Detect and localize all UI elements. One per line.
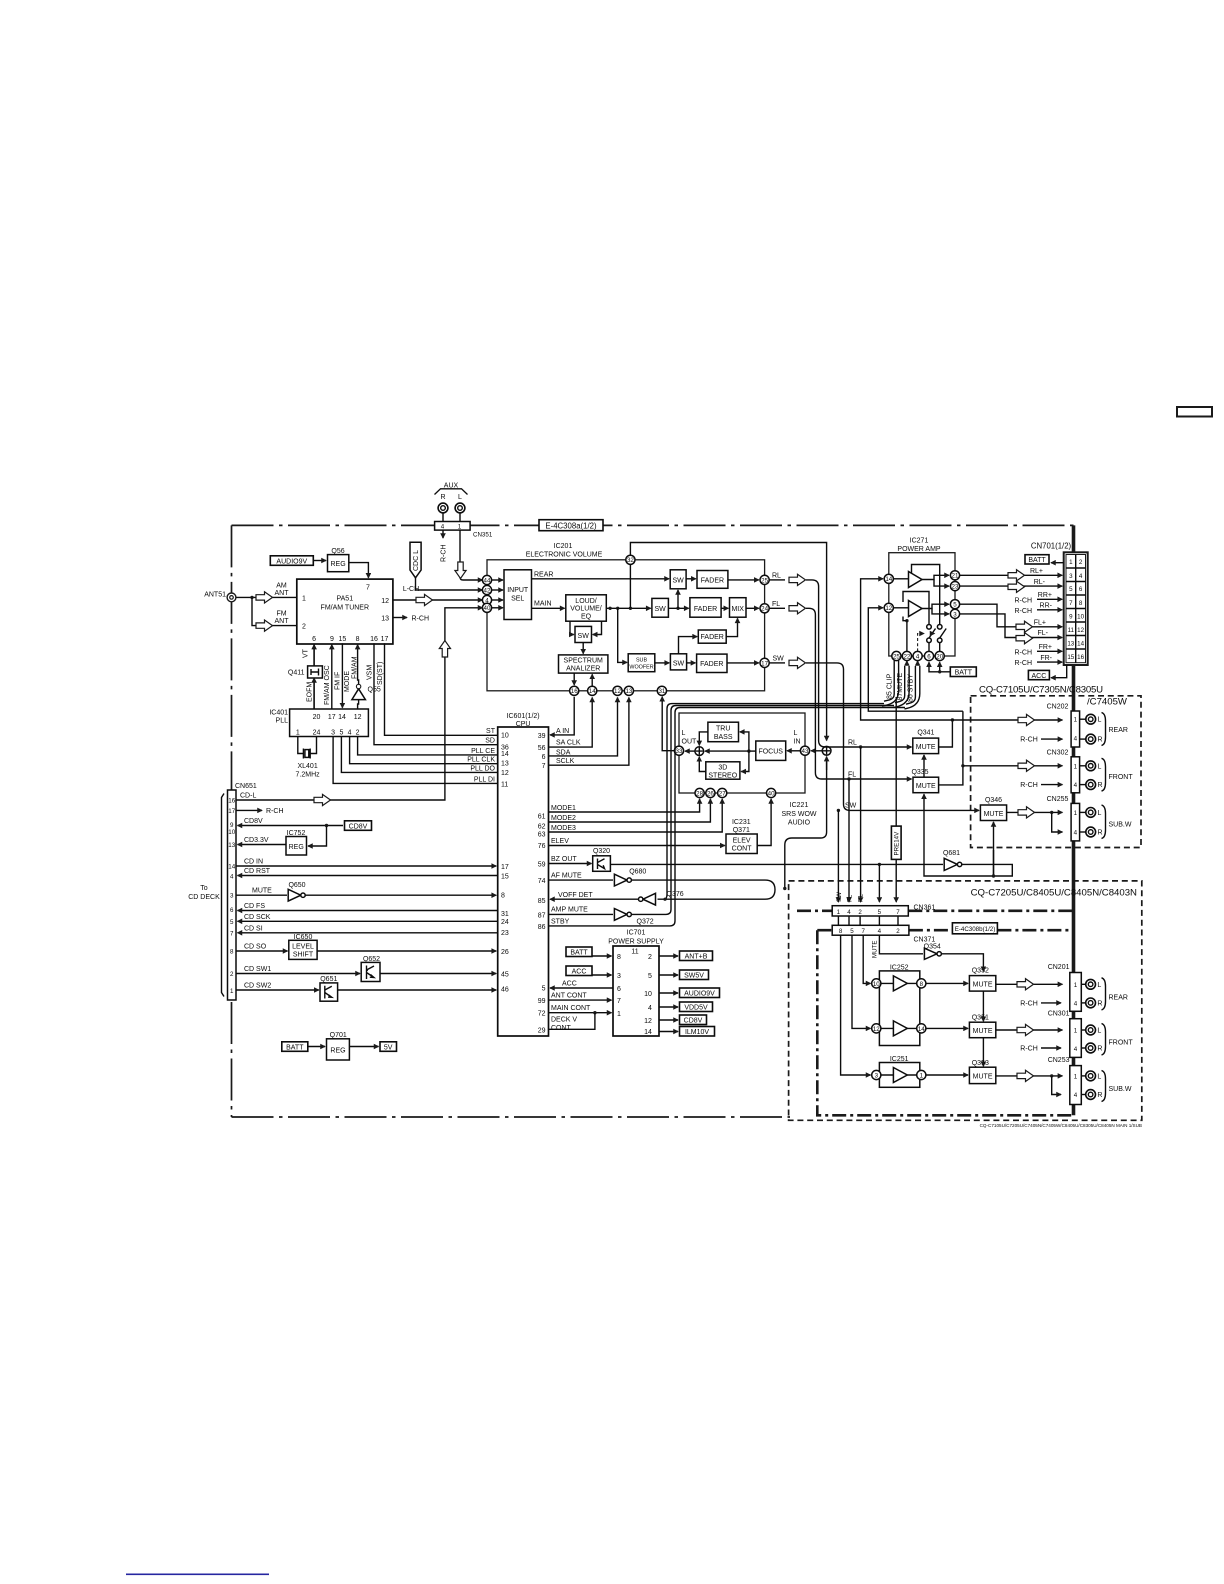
svg-text:FM IF: FM IF xyxy=(335,672,342,690)
wire Q372 out up to IC271 mute funnel xyxy=(631,706,894,915)
svg-text:24: 24 xyxy=(501,919,509,926)
svg-text:14: 14 xyxy=(1077,641,1084,648)
svg-text:MAIN: MAIN xyxy=(534,601,552,608)
svg-text:FOCUS: FOCUS xyxy=(758,749,783,756)
svg-text:RR-: RR- xyxy=(1040,603,1053,610)
svg-text:CN302: CN302 xyxy=(1047,749,1069,756)
pin 24 xyxy=(760,604,769,613)
wires CN361 to CN371 xyxy=(838,916,898,925)
svg-text:43: 43 xyxy=(802,748,809,755)
svg-text:MODE3: MODE3 xyxy=(551,825,576,832)
svg-text:CN651: CN651 xyxy=(235,783,257,790)
svg-text:BZ OUT: BZ OUT xyxy=(551,856,577,863)
svg-text:CD-L: CD-L xyxy=(240,793,256,800)
node clip branch xyxy=(878,863,881,866)
node RL tap xyxy=(859,745,862,748)
svg-text:Q411: Q411 xyxy=(288,670,305,677)
svg-text:FADER: FADER xyxy=(701,577,724,584)
block FADER1 xyxy=(697,571,728,589)
svg-text:VOFF DET: VOFF DET xyxy=(558,892,593,899)
svg-text:4: 4 xyxy=(1079,573,1083,580)
pin 31 bottom xyxy=(657,686,666,695)
svg-text:8: 8 xyxy=(920,981,924,988)
node sub split xyxy=(1050,811,1053,814)
svg-text:5: 5 xyxy=(339,729,343,736)
svg-text:2: 2 xyxy=(648,954,652,961)
sub board label E-4C308b(1/2) xyxy=(952,923,997,934)
wire R-CH tuner pin13 xyxy=(393,617,407,619)
svg-text:FL: FL xyxy=(847,894,854,902)
svg-text:10: 10 xyxy=(228,829,235,836)
svg-text:7: 7 xyxy=(230,931,234,938)
svg-text:5: 5 xyxy=(878,909,882,916)
svg-text:R: R xyxy=(440,494,445,501)
switch contacts sw2 xyxy=(937,625,942,630)
svg-text:REAR: REAR xyxy=(1109,727,1128,734)
boxed label ANT+B xyxy=(659,955,678,957)
svg-text:SUB.W: SUB.W xyxy=(1109,1086,1132,1093)
svg-text:REG: REG xyxy=(331,561,346,568)
svg-text:REG: REG xyxy=(330,1048,345,1055)
amp A1 xyxy=(909,572,923,588)
wire sub253 to pin4 xyxy=(1052,1076,1061,1095)
svg-text:10: 10 xyxy=(1077,614,1084,621)
open arrow SW out xyxy=(789,657,806,668)
wire pin23 to RL- xyxy=(960,585,1063,587)
svg-text:SCLK: SCLK xyxy=(556,758,575,765)
pin 3 amp xyxy=(950,609,959,618)
wire RL out pin25 xyxy=(769,579,785,581)
svg-text:17: 17 xyxy=(761,660,768,667)
svg-text:CN201: CN201 xyxy=(1048,964,1070,971)
open arrow AM xyxy=(256,592,273,603)
svg-text:FRONT: FRONT xyxy=(1109,774,1134,781)
svg-text:MUTE: MUTE xyxy=(872,940,879,958)
dashed stby control xyxy=(918,634,924,652)
pin 13 bottom xyxy=(624,686,633,695)
svg-text:RL: RL xyxy=(848,739,857,746)
wire EQ to SW2 xyxy=(606,607,650,609)
svg-text:1: 1 xyxy=(1074,1073,1078,1080)
page number box top right xyxy=(1177,407,1212,417)
svg-text:33: 33 xyxy=(676,748,683,755)
svg-text:56: 56 xyxy=(538,745,546,752)
svg-text:R-CH: R-CH xyxy=(1020,782,1038,789)
svg-text:AMP MUTE: AMP MUTE xyxy=(551,907,588,914)
svg-text:FL: FL xyxy=(772,601,780,608)
boxed label ACC ps xyxy=(566,966,592,976)
switch contacts sw1 xyxy=(927,625,932,630)
svg-text:1: 1 xyxy=(302,595,306,602)
svg-text:VT: VT xyxy=(303,648,310,658)
boxed label BATT cn701 xyxy=(1025,555,1049,564)
svg-text:16: 16 xyxy=(1077,654,1084,661)
wire sub preout to CN255 xyxy=(1007,811,1063,813)
svg-text:L: L xyxy=(1097,982,1101,989)
jack 301 L xyxy=(1081,1029,1086,1031)
node rear join xyxy=(951,718,954,721)
pin 42 xyxy=(482,585,491,594)
node main c xyxy=(629,607,632,610)
svg-text:13: 13 xyxy=(625,688,632,695)
svg-text:Q651: Q651 xyxy=(320,976,337,983)
wire A1 to pin23 xyxy=(934,580,949,587)
node batt xyxy=(938,670,941,673)
wire PLL pin3 PLL DI xyxy=(333,737,498,784)
wire RR- xyxy=(1037,609,1062,611)
svg-text:1: 1 xyxy=(230,988,234,995)
wire CN371 pin7 to IC252 pin10 xyxy=(863,935,870,983)
wire PLL pin12 to Q55 xyxy=(358,700,359,709)
svg-text:4: 4 xyxy=(348,729,352,736)
svg-text:1: 1 xyxy=(617,1011,621,1018)
wire tuner pin16 VSM to CPU SD xyxy=(374,643,498,744)
pin 1 ic251 xyxy=(917,1070,926,1079)
svg-text:FADER: FADER xyxy=(694,606,717,613)
wire rear line to amp pin14 xyxy=(861,579,953,720)
node afmute sum2 join xyxy=(783,887,786,890)
svg-text:27: 27 xyxy=(719,790,726,797)
svg-text:SW: SW xyxy=(845,803,857,810)
svg-text:12: 12 xyxy=(644,1018,652,1025)
svg-text:R-CH: R-CH xyxy=(266,808,284,815)
control Q335 to Q341 xyxy=(923,755,925,777)
svg-text:STEREO: STEREO xyxy=(708,773,737,780)
amp A2 feedback xyxy=(903,592,929,603)
svg-text:28: 28 xyxy=(696,790,703,797)
svg-text:SEL: SEL xyxy=(511,596,524,603)
svg-text:R: R xyxy=(1097,1000,1102,1007)
open arrow down on AUX L wire xyxy=(455,562,466,579)
SRS IC221 box xyxy=(679,713,805,793)
node control split xyxy=(992,874,995,877)
svg-text:MUTE: MUTE xyxy=(984,811,1004,818)
svg-text:5: 5 xyxy=(542,985,546,992)
wire CD8V down to IC752 xyxy=(308,826,327,847)
svg-text:CN701(1/2): CN701(1/2) xyxy=(1031,542,1072,551)
block FADER2 xyxy=(690,598,721,618)
wire Q354 to mute chain xyxy=(941,954,983,972)
svg-text:STBY: STBY xyxy=(551,918,570,925)
open arrow FL- xyxy=(1016,633,1033,644)
svg-text:SW: SW xyxy=(672,577,684,584)
svg-text:13: 13 xyxy=(381,616,389,623)
svg-text:7: 7 xyxy=(542,763,546,770)
amp A2 xyxy=(909,601,923,617)
svg-text:ANT CONT: ANT CONT xyxy=(551,993,587,1000)
svg-text:POWER AMP: POWER AMP xyxy=(897,546,941,553)
svg-text:17: 17 xyxy=(228,808,235,815)
svg-text:17: 17 xyxy=(381,636,389,643)
svg-text:PLL DI: PLL DI xyxy=(474,776,495,783)
wire Q55 to tuner pin8 FM/AM xyxy=(358,645,359,685)
wire CN351 pin4 R-CH out xyxy=(442,530,444,538)
svg-text:CD SI: CD SI xyxy=(244,925,263,932)
svg-text:1: 1 xyxy=(1074,717,1078,724)
pin 21 xyxy=(950,571,959,580)
jack front L xyxy=(1080,765,1087,767)
svg-text:4: 4 xyxy=(1074,1046,1078,1053)
node cd8v xyxy=(325,824,328,827)
svg-text:8: 8 xyxy=(617,954,621,961)
pin 12 ic252 xyxy=(872,1024,881,1033)
svg-text:Q346: Q346 xyxy=(985,797,1002,804)
pin 14 bottom xyxy=(588,686,597,695)
pin 17 xyxy=(760,658,769,667)
svg-text:40: 40 xyxy=(484,605,491,612)
svg-text:SW: SW xyxy=(654,606,666,613)
wire sw to pin6 pin20 xyxy=(929,643,940,652)
svg-text:87: 87 xyxy=(538,912,546,919)
wire tuner pin17 SD(ST) to CPU ST xyxy=(385,643,498,735)
wire node to TRU BASS xyxy=(740,732,749,751)
boxed label 5V xyxy=(380,1042,397,1052)
svg-text:AF MUTE: AF MUTE xyxy=(551,873,582,880)
svg-text:32: 32 xyxy=(627,557,634,564)
wire tuner pin15 to PLL pin14 FM IF xyxy=(341,643,343,707)
svg-text:16: 16 xyxy=(228,798,235,805)
svg-text:20: 20 xyxy=(936,653,943,660)
svg-text:3: 3 xyxy=(1069,573,1073,580)
wire Q352 ctl to Q351 xyxy=(982,991,984,1021)
svg-text:SW5V: SW5V xyxy=(684,973,704,980)
wire A1 to pin21 xyxy=(922,575,949,579)
wire front preout to CN302 xyxy=(963,765,1063,767)
svg-text:6: 6 xyxy=(927,653,931,660)
svg-text:3: 3 xyxy=(617,973,621,980)
pin 40 xyxy=(482,603,491,612)
svg-text:IC271: IC271 xyxy=(910,538,929,545)
svg-text:85: 85 xyxy=(538,898,546,905)
svg-text:CD RST: CD RST xyxy=(244,868,271,875)
pin 28 xyxy=(695,788,704,797)
svg-text:FR-: FR- xyxy=(1040,655,1052,662)
svg-text:12: 12 xyxy=(501,770,509,777)
svg-text:4: 4 xyxy=(1074,1092,1078,1099)
wire jack L to CN351 xyxy=(459,513,461,522)
svg-text:IN: IN xyxy=(794,739,801,746)
svg-text:5: 5 xyxy=(648,973,652,980)
node front join xyxy=(961,764,964,767)
wire DECK V CONT cpu29 xyxy=(549,1013,595,1030)
svg-text:OUT: OUT xyxy=(682,739,698,746)
amp ic252a xyxy=(893,976,907,991)
svg-text:CD DECK: CD DECK xyxy=(188,894,220,901)
svg-text:CD8V: CD8V xyxy=(684,1018,703,1025)
svg-text:3D: 3D xyxy=(718,765,727,772)
wire Q701 to 5V xyxy=(349,1046,378,1048)
thick right bus line xyxy=(1072,525,1076,1115)
wire rear preout to CN202 xyxy=(952,719,1062,721)
svg-text:7: 7 xyxy=(896,909,900,916)
svg-text:31: 31 xyxy=(501,911,509,918)
wire STBY cpu86 up to IC271 stby funnel xyxy=(549,708,906,926)
svg-text:R: R xyxy=(1098,782,1103,789)
open arrow q351 xyxy=(1017,1024,1034,1035)
svg-text:SUB.W: SUB.W xyxy=(1109,821,1132,828)
wire SW3 to SPECTRUM xyxy=(582,643,584,654)
svg-text:E-4C308b(1/2): E-4C308b(1/2) xyxy=(955,926,996,933)
svg-text:EQ: EQ xyxy=(581,613,592,620)
svg-text:9: 9 xyxy=(230,822,234,829)
connector CN371 xyxy=(832,925,909,935)
svg-text:Q680: Q680 xyxy=(629,868,646,875)
svg-text:MUTE: MUTE xyxy=(973,981,993,988)
boxed label BATT ps xyxy=(566,947,592,957)
wire A2 to pin5 xyxy=(922,604,949,608)
board border bottom xyxy=(232,1116,791,1118)
svg-text:1: 1 xyxy=(1074,982,1078,989)
svg-text:6: 6 xyxy=(542,754,546,761)
svg-text:R-CH: R-CH xyxy=(1020,1000,1038,1007)
open arrow CD-L vertical xyxy=(439,641,450,658)
svg-text:CONT: CONT xyxy=(551,1025,572,1032)
boxed label BATT amp xyxy=(950,667,976,677)
wire MODE3 xyxy=(549,799,723,832)
open arrow FL+ xyxy=(1016,621,1033,632)
svg-text:86 STBY: 86 STBY xyxy=(908,674,915,702)
wire AMP MUTE cpu87 to Q372 xyxy=(549,913,614,915)
svg-text:REAR: REAR xyxy=(534,572,553,579)
svg-text:7: 7 xyxy=(366,585,370,592)
svg-text:44: 44 xyxy=(484,577,491,584)
svg-text:4: 4 xyxy=(878,928,882,935)
bracket front 301 xyxy=(1102,1024,1106,1056)
svg-text:Q320: Q320 xyxy=(593,848,610,855)
svg-text:1: 1 xyxy=(920,1072,924,1079)
svg-text:IC231: IC231 xyxy=(732,819,751,826)
svg-text:76: 76 xyxy=(538,843,546,850)
svg-text:MODE2: MODE2 xyxy=(551,815,576,822)
jack 253 R xyxy=(1081,1094,1086,1096)
svg-text:CD SW2: CD SW2 xyxy=(244,983,271,990)
svg-text:To: To xyxy=(200,885,208,892)
svg-text:25: 25 xyxy=(893,653,900,660)
svg-text:10: 10 xyxy=(873,981,880,988)
ribbon mute pin22 xyxy=(893,666,909,708)
svg-text:3: 3 xyxy=(230,893,234,900)
wire CN371 pin8 to IC251 pin3 xyxy=(841,935,871,1075)
svg-text:SPECTRUM: SPECTRUM xyxy=(564,658,603,665)
pin 8 ic252 xyxy=(917,979,926,988)
ribbon clip pin25 xyxy=(882,660,899,706)
svg-text:MAIN CONT: MAIN CONT xyxy=(551,1005,591,1012)
svg-text:PRE14V: PRE14V xyxy=(893,831,900,856)
svg-text:R-CH: R-CH xyxy=(441,545,448,563)
svg-text:FADER: FADER xyxy=(701,634,724,641)
wire ELEV CONT to pin40 xyxy=(757,799,771,846)
svg-text:L: L xyxy=(682,730,686,737)
svg-text:MUTE: MUTE xyxy=(973,1028,993,1035)
svg-text:ANT: ANT xyxy=(275,590,290,597)
wire ic252 pin8 to Q352 xyxy=(926,982,968,984)
svg-text:/C7405W: /C7405W xyxy=(1087,697,1128,708)
svg-text:62: 62 xyxy=(538,824,546,831)
wire sum2 lower feed xyxy=(785,761,827,888)
svg-text:CN255: CN255 xyxy=(1047,796,1069,803)
svg-text:3: 3 xyxy=(953,611,957,618)
svg-text:4: 4 xyxy=(1074,830,1078,837)
svg-text:PLL DO: PLL DO xyxy=(470,765,495,772)
svg-text:9: 9 xyxy=(330,636,334,643)
svg-text:FM/AM TUNER: FM/AM TUNER xyxy=(321,605,369,612)
svg-text:Q56: Q56 xyxy=(331,548,344,555)
block SUB WOOFER xyxy=(628,654,655,672)
svg-text:6: 6 xyxy=(230,907,234,914)
wire AF MUTE cpu74 to Q680 xyxy=(549,879,614,881)
node after SW2 xyxy=(676,607,679,610)
svg-text:SW: SW xyxy=(836,892,843,902)
svg-text:1: 1 xyxy=(1069,559,1073,566)
svg-text:8: 8 xyxy=(501,893,505,900)
svg-text:12: 12 xyxy=(354,714,362,721)
node FL tap xyxy=(847,777,850,780)
svg-text:72: 72 xyxy=(538,1011,546,1018)
pin 14 amp xyxy=(884,574,893,583)
svg-text:14: 14 xyxy=(644,1029,652,1036)
pin 4 stby xyxy=(913,651,922,660)
wire ACC out pin6 to cpu5 xyxy=(550,987,613,989)
svg-text:31: 31 xyxy=(658,688,665,695)
svg-text:MIX: MIX xyxy=(731,606,744,613)
svg-text:8: 8 xyxy=(839,928,843,935)
block FADER4 xyxy=(697,654,727,672)
block INPUT SEL xyxy=(504,570,532,620)
svg-text:L-CH: L-CH xyxy=(403,586,419,593)
wire Q652 to cpu45 xyxy=(380,973,496,975)
svg-text:R-CH: R-CH xyxy=(1015,597,1033,604)
svg-text:RL: RL xyxy=(858,894,865,902)
wire Q320 to Q681 xyxy=(610,863,943,865)
open arrow RL+ xyxy=(1008,570,1025,581)
wire FOCUS to node xyxy=(749,750,756,752)
svg-text:13: 13 xyxy=(501,761,509,768)
svg-text:11: 11 xyxy=(631,949,638,956)
svg-text:VDD5V: VDD5V xyxy=(684,1005,708,1012)
wire to FM ANT xyxy=(252,597,297,625)
pin 33 xyxy=(674,746,683,755)
wire SW1 to FADER1 xyxy=(686,578,696,580)
svg-text:8: 8 xyxy=(356,636,360,643)
svg-text:L: L xyxy=(1097,1028,1101,1035)
inverter Q372 xyxy=(614,909,627,921)
svg-text:R-CH: R-CH xyxy=(1015,649,1033,656)
svg-text:26: 26 xyxy=(501,949,509,956)
wire FADER2 to MIX xyxy=(721,607,728,609)
wire REAR to SW1 xyxy=(532,578,670,580)
svg-text:FM: FM xyxy=(276,611,286,618)
svg-text:7: 7 xyxy=(617,998,621,1005)
svg-text:L: L xyxy=(1097,1073,1101,1080)
wire pin43 to FOCUS xyxy=(787,750,800,752)
open arrow q353 xyxy=(1017,1070,1034,1081)
wire sum2 to pin43 xyxy=(811,750,822,752)
wire jack R to CN351 xyxy=(442,513,444,522)
boxed label AUDIO9V out xyxy=(659,992,678,994)
boxed label CD8V out xyxy=(659,1019,678,1021)
svg-text:ACC: ACC xyxy=(572,969,587,976)
wire MODE1 xyxy=(549,799,700,812)
wire ACC to pin3 xyxy=(592,974,612,976)
pin 26 xyxy=(706,788,715,797)
tuner PA51 FM/AM TUNER xyxy=(297,579,393,644)
wire node to sum1 xyxy=(705,750,749,752)
pin 14 ic252 xyxy=(917,1024,926,1033)
svg-text:4: 4 xyxy=(916,653,920,660)
wire BZ OUT cpu59 to Q320 xyxy=(549,863,592,865)
svg-text:MUTE: MUTE xyxy=(916,783,936,790)
svg-text:8: 8 xyxy=(1079,600,1083,607)
